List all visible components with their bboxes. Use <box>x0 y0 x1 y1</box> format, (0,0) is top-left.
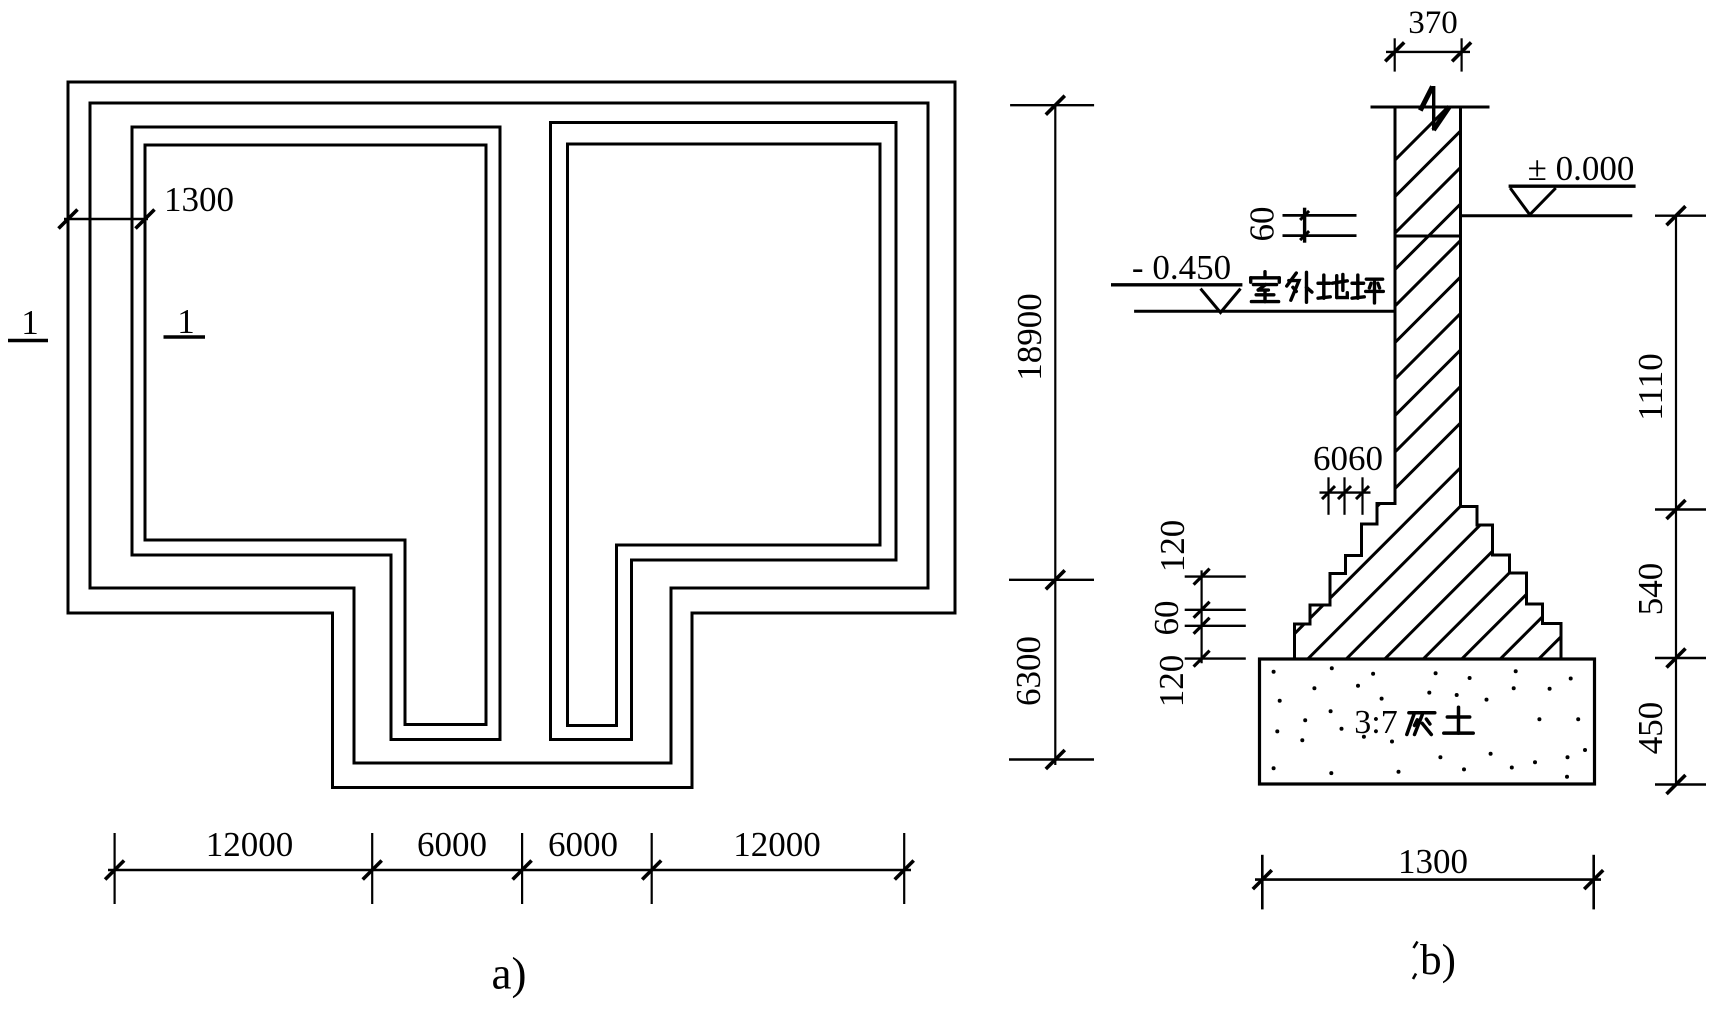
right dimension extension line y 509.5 <box>1655 508 1706 510</box>
svg-text:3:7: 3:7 <box>1354 704 1397 741</box>
footing step extension line y 576.6 <box>1185 575 1246 577</box>
right dimension vertical line <box>1675 216 1677 786</box>
dimension 370 tick right <box>1460 38 1462 71</box>
svg-text:6000: 6000 <box>417 825 487 864</box>
plan left room wall face outline <box>132 127 500 740</box>
dimension 60 floor upper line <box>1283 214 1357 217</box>
wall top break vertical stroke <box>1432 86 1435 131</box>
plan bottom dimension tick at 114.6 <box>113 833 115 904</box>
svg-text:1300: 1300 <box>1398 842 1468 881</box>
level -0.450 triangle <box>1201 289 1241 313</box>
floor construction line inside wall <box>1395 235 1461 238</box>
chinese character shi (room) <box>1251 272 1280 302</box>
right dimension extension line y 784.5 <box>1655 783 1706 785</box>
indoor floor line <box>1461 214 1633 217</box>
plan right room inner footing edge <box>568 144 881 726</box>
plan bottom dimension tick at 651.7 <box>651 833 653 904</box>
chinese character hui (lime) <box>1407 713 1435 735</box>
svg-text:- 0.450: - 0.450 <box>1132 248 1231 287</box>
svg-text:60: 60 <box>1147 601 1186 636</box>
plan outer footing edge outline <box>68 82 955 788</box>
svg-text:540: 540 <box>1631 563 1670 616</box>
dimension 1300 slash left <box>59 210 78 229</box>
footing step extension line y 625.8 <box>1185 625 1246 627</box>
section mark 1 (left) underline <box>8 339 48 343</box>
dimension 370 line <box>1386 51 1470 53</box>
outdoor ground line <box>1134 310 1395 313</box>
chinese character di (ground) <box>1318 274 1347 298</box>
chinese character wai (outside) <box>1287 272 1312 302</box>
dimension 1300 slash right <box>136 210 155 229</box>
dimension 1300 (section) line <box>1255 878 1601 881</box>
svg-text:b): b) <box>1420 937 1456 984</box>
dimension 60 floor tick <box>1303 208 1306 243</box>
plan bottom dimension tick at 904.2 <box>903 833 905 904</box>
dimension 6060 line <box>1320 491 1371 493</box>
wall top break zigzag wedge left <box>1420 87 1432 111</box>
footing step dimension vertical line <box>1200 570 1202 663</box>
footing step extension line y 658.6 <box>1185 657 1246 659</box>
plan left room inner footing edge <box>145 145 486 725</box>
svg-text:6000: 6000 <box>548 825 618 864</box>
left dimension extension line y 105.2 <box>1010 104 1094 106</box>
right dimension extension line y 658 <box>1655 657 1706 659</box>
level +-0.000 triangle <box>1510 188 1556 215</box>
svg-text:450: 450 <box>1631 702 1670 755</box>
dimension 6060 tick at 1362.5 <box>1361 477 1363 515</box>
dimension 1300 (section) tick left <box>1261 855 1264 910</box>
lime-soil dots <box>1272 666 1587 778</box>
svg-text:12000: 12000 <box>206 825 294 864</box>
svg-text:120: 120 <box>1152 655 1191 708</box>
wall top edge line left segment <box>1371 106 1422 109</box>
chinese character tu (soil) <box>1444 707 1473 733</box>
plan bottom dimension tick at 522.1 <box>521 833 523 904</box>
svg-text:6300: 6300 <box>1009 636 1048 706</box>
svg-text:a): a) <box>492 949 527 999</box>
dimension 370 tick left <box>1394 38 1396 71</box>
svg-text:12000: 12000 <box>733 825 821 864</box>
chinese character ping (level) <box>1352 275 1383 303</box>
svg-text:1110: 1110 <box>1631 353 1670 420</box>
left dimension extension line y 579.8 <box>1009 579 1094 581</box>
dimension 1300 (section) tick right <box>1592 855 1595 910</box>
right dimension extension line y 215.7 <box>1655 214 1706 216</box>
section mark 1 (inner) underline <box>164 335 206 339</box>
plan right room wall face outline <box>551 123 897 740</box>
dimension 1300 line (plan) <box>64 218 148 220</box>
faint left parenthesis tip bottom <box>1413 974 1416 980</box>
svg-text:± 0.000: ± 0.000 <box>1528 149 1635 188</box>
svg-text:18900: 18900 <box>1010 293 1049 381</box>
left dimension extension line y 759.5 <box>1009 758 1094 760</box>
svg-text:6060: 6060 <box>1313 439 1383 478</box>
section hatching 45deg <box>896 100 1732 659</box>
level -0.450 underline <box>1111 283 1242 286</box>
svg-text:1300: 1300 <box>164 180 234 219</box>
svg-text:120: 120 <box>1153 520 1192 573</box>
left dimension vertical line <box>1054 105 1056 765</box>
faint left parenthesis tip top <box>1414 942 1418 949</box>
svg-text:1: 1 <box>177 302 195 341</box>
dimension 60 floor lower line <box>1283 234 1357 237</box>
plan bottom dimension line <box>108 869 911 871</box>
svg-text:60: 60 <box>1243 207 1282 242</box>
plan bottom dimension tick at 372.2 <box>371 833 373 904</box>
section wall and stepped footing outline <box>1295 107 1562 659</box>
wall top edge line right segment <box>1450 106 1490 109</box>
level +-0.000 underline <box>1509 184 1636 187</box>
plan outer wall face outline <box>90 103 928 763</box>
dimension 6060 tick at 1344.5 <box>1343 477 1345 515</box>
svg-text:1: 1 <box>21 303 39 342</box>
footing step extension line y 609.8 <box>1185 609 1246 611</box>
lime-soil block rectangle <box>1260 659 1595 784</box>
wall top break zigzag wedge right <box>1434 107 1450 131</box>
svg-text:370: 370 <box>1408 5 1458 41</box>
dimension 6060 tick at 1328.5 <box>1327 477 1329 515</box>
